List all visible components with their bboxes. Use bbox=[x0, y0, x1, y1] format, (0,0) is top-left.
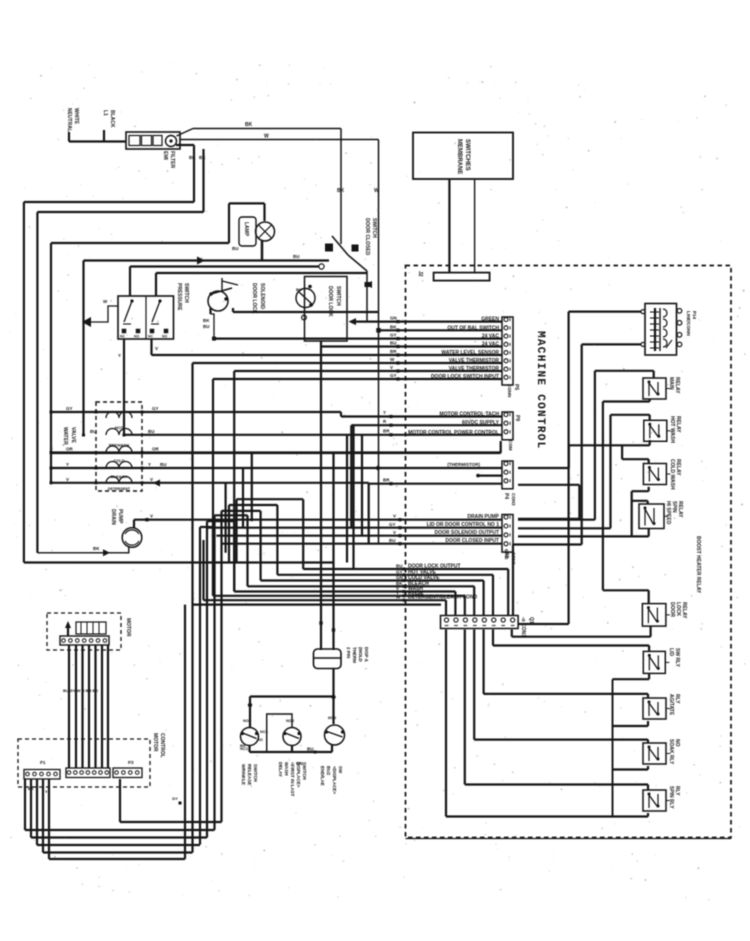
svg-text:DOOR: DOOR bbox=[669, 602, 675, 617]
svg-text:VALVE THERMISTOR: VALVE THERMISTOR bbox=[449, 366, 500, 372]
svg-text:RELEASE: RELEASE bbox=[247, 764, 252, 785]
svg-text:OR: OR bbox=[152, 447, 160, 452]
svg-text:BU: BU bbox=[232, 246, 239, 251]
svg-text:BU: BU bbox=[148, 429, 155, 434]
svg-text:RELAY: RELAY bbox=[681, 602, 687, 619]
svg-text:GN: GN bbox=[296, 761, 303, 766]
svg-text:BLACK: BLACK bbox=[109, 110, 115, 128]
svg-text:GY: GY bbox=[390, 373, 397, 378]
svg-text:24 VAC: 24 VAC bbox=[482, 334, 500, 340]
svg-text:BU: BU bbox=[390, 341, 397, 346]
svg-text:P1: P1 bbox=[40, 760, 46, 765]
svg-text:SWITCH: SWITCH bbox=[371, 218, 377, 238]
svg-text:MOTOR CONTROL TACH: MOTOR CONTROL TACH bbox=[440, 412, 500, 418]
svg-text:BOOST HEATER RELAY: BOOST HEATER RELAY bbox=[695, 536, 701, 594]
svg-text:Q1: Q1 bbox=[528, 617, 534, 624]
svg-text:Y: Y bbox=[118, 353, 121, 358]
svg-text:DOOR LOCK SWITCH INPUT: DOOR LOCK SWITCH INPUT bbox=[431, 374, 499, 380]
svg-text:SWITCH: SWITCH bbox=[302, 762, 307, 780]
svg-text:DELAY: DELAY bbox=[278, 762, 283, 777]
svg-text:GY: GY bbox=[172, 796, 178, 801]
svg-text:WATER LEVEL SENSOR: WATER LEVEL SENSOR bbox=[441, 350, 499, 356]
svg-text:V: V bbox=[66, 477, 69, 482]
svg-text:NEUTRAL: NEUTRAL bbox=[66, 108, 72, 132]
svg-text:LOCK: LOCK bbox=[675, 602, 681, 617]
svg-text:Y: Y bbox=[383, 410, 386, 415]
svg-text:GY: GY bbox=[390, 333, 397, 338]
svg-text:BU: BU bbox=[90, 429, 97, 434]
svg-text:RLY: RLY bbox=[674, 786, 680, 796]
svg-text:SW: SW bbox=[338, 766, 343, 774]
svg-text:SW RLY: SW RLY bbox=[674, 648, 680, 668]
svg-text:BU GY W R BR BK: BU GY W R BR BK bbox=[63, 688, 98, 693]
svg-text:NO: NO bbox=[162, 335, 167, 339]
svg-text:SWITCH: SWITCH bbox=[335, 286, 341, 306]
svg-text:2 PIN: 2 PIN bbox=[346, 647, 351, 658]
svg-text:J2: J2 bbox=[417, 271, 423, 277]
svg-text:(THERMISTOR): (THERMISTOR) bbox=[447, 462, 480, 467]
svg-text:BU: BU bbox=[293, 254, 300, 259]
svg-text:WASH: WASH bbox=[284, 762, 289, 776]
svg-text:NO2: NO2 bbox=[243, 718, 252, 723]
svg-text:60VDC SUPPLY: 60VDC SUPPLY bbox=[462, 420, 500, 426]
svg-text:BR: BR bbox=[383, 429, 390, 434]
svg-text:CONTROL: CONTROL bbox=[159, 733, 165, 758]
svg-text:CON3: CON3 bbox=[511, 493, 516, 506]
svg-text:LAMP: LAMP bbox=[243, 222, 249, 237]
svg-text:SWITCH: SWITCH bbox=[183, 283, 189, 303]
svg-text:24 VAC: 24 VAC bbox=[482, 342, 500, 348]
svg-text:GREEN: GREEN bbox=[481, 317, 499, 323]
svg-text:SWITCH: SWITCH bbox=[253, 764, 258, 782]
svg-text:OUT OF BAL SWITCH: OUT OF BAL SWITCH bbox=[447, 325, 499, 331]
svg-text:BK: BK bbox=[28, 786, 34, 791]
svg-text:THERM: THERM bbox=[352, 647, 357, 663]
svg-text:P5: P5 bbox=[513, 384, 519, 390]
svg-text:V: V bbox=[150, 514, 153, 519]
svg-text:WRINKLE: WRINKLE bbox=[241, 764, 246, 785]
svg-text:AGITATE: AGITATE bbox=[668, 694, 674, 716]
svg-text:SWITCHES: SWITCHES bbox=[464, 139, 470, 171]
svg-text:DOOR LOCK: DOOR LOCK bbox=[251, 283, 257, 314]
svg-text:NC: NC bbox=[120, 335, 125, 339]
svg-text:PUMP: PUMP bbox=[117, 509, 123, 524]
svg-text:GY: GY bbox=[396, 569, 403, 574]
svg-text:OR: OR bbox=[66, 447, 74, 452]
svg-text:RLY: RLY bbox=[674, 694, 680, 704]
svg-text:NO: NO bbox=[674, 739, 680, 747]
svg-text:(MOLD: (MOLD bbox=[358, 647, 363, 662]
svg-text:NO2: NO2 bbox=[286, 718, 295, 723]
svg-text:WHITE: WHITE bbox=[73, 108, 79, 125]
svg-text:SOAK RLY: SOAK RLY bbox=[668, 739, 674, 765]
svg-text:BU: BU bbox=[203, 324, 210, 329]
svg-text:MOTOR: MOTOR bbox=[125, 618, 131, 637]
svg-text:BU: BU bbox=[307, 747, 314, 752]
svg-text:SPIN RLY: SPIN RLY bbox=[668, 786, 674, 809]
svg-text:BK: BK bbox=[390, 324, 397, 329]
svg-text:CONN: CONN bbox=[507, 384, 512, 397]
svg-text:BK: BK bbox=[245, 122, 253, 128]
svg-text:V: V bbox=[393, 530, 396, 535]
svg-text:NC: NC bbox=[258, 738, 264, 742]
svg-text:COLD WASH: COLD WASH bbox=[669, 459, 675, 490]
svg-text:Y: Y bbox=[45, 789, 48, 794]
svg-text:NC2: NC2 bbox=[260, 729, 269, 734]
svg-text:NC: NC bbox=[148, 335, 153, 339]
svg-text:BR: BR bbox=[390, 349, 397, 354]
svg-text:SPIN: SPIN bbox=[671, 501, 677, 513]
svg-text:P14: P14 bbox=[692, 311, 697, 320]
svg-text:BU: BU bbox=[389, 538, 396, 543]
svg-text:BU: BU bbox=[296, 287, 302, 292]
svg-text:LINE/CONN: LINE/CONN bbox=[686, 311, 691, 336]
svg-text:BU: BU bbox=[160, 462, 167, 467]
svg-text:VALVE: VALVE bbox=[70, 427, 76, 444]
svg-text:L1: L1 bbox=[102, 110, 108, 116]
svg-text:EMI: EMI bbox=[162, 151, 168, 161]
svg-text:P4: P4 bbox=[503, 493, 509, 499]
svg-text:BK: BK bbox=[189, 155, 196, 160]
svg-text:GY: GY bbox=[389, 522, 396, 527]
svg-text:V: V bbox=[155, 346, 158, 351]
svg-text:HOT: HOT bbox=[115, 425, 124, 430]
svg-text:WATER: WATER bbox=[62, 427, 68, 445]
svg-text:LID: LID bbox=[668, 648, 674, 656]
svg-text:BK: BK bbox=[93, 546, 100, 551]
svg-text:V: V bbox=[390, 365, 393, 370]
svg-text:V: V bbox=[393, 514, 396, 519]
svg-text:COLD: COLD bbox=[113, 458, 124, 463]
svg-text:PREWASH: PREWASH bbox=[109, 443, 129, 448]
svg-text:VALVE THERMISTOR: VALVE THERMISTOR bbox=[449, 358, 500, 364]
svg-text:RELAY: RELAY bbox=[674, 377, 680, 394]
svg-text:W: W bbox=[264, 134, 269, 140]
svg-text:DETERGENT: DETERGENT bbox=[108, 487, 131, 491]
svg-text:RELAY: RELAY bbox=[677, 501, 683, 518]
svg-text:MEMBRANE: MEMBRANE bbox=[456, 139, 462, 174]
svg-text:RELAY: RELAY bbox=[675, 416, 681, 433]
svg-text:DOOR CLOSED: DOOR CLOSED bbox=[364, 218, 370, 256]
svg-text:DOOR LOCK: DOOR LOCK bbox=[327, 286, 333, 317]
svg-text:BR: BR bbox=[383, 478, 390, 483]
svg-text:DISP &: DISP & bbox=[364, 647, 369, 663]
svg-text:BK: BK bbox=[203, 318, 210, 323]
svg-text:MAIN: MAIN bbox=[668, 377, 674, 390]
svg-text:DRAIN: DRAIN bbox=[110, 509, 116, 525]
svg-text:MOTOR: MOTOR bbox=[152, 733, 158, 752]
svg-text:BU: BU bbox=[396, 564, 403, 569]
svg-text:-o CON1: -o CON1 bbox=[520, 617, 526, 637]
svg-text:V: V bbox=[150, 477, 153, 482]
svg-text:HI SPEED: HI SPEED bbox=[665, 501, 671, 525]
svg-text:COM: COM bbox=[508, 440, 513, 451]
svg-text:RELAY: RELAY bbox=[675, 459, 681, 476]
svg-text:BK: BK bbox=[199, 155, 206, 160]
svg-text:GN: GN bbox=[396, 575, 403, 580]
svg-text:HOT WASH: HOT WASH bbox=[669, 416, 675, 443]
svg-text:DETERGENT/BLEACH COND: DETERGENT/BLEACH COND bbox=[408, 595, 478, 601]
svg-text:MOTOR CONTROL POWER CONTROL: MOTOR CONTROL POWER CONTROL bbox=[408, 430, 499, 436]
svg-text:BUZ: BUZ bbox=[326, 766, 331, 775]
svg-text:P9: P9 bbox=[514, 415, 520, 421]
svg-text:FILTER: FILTER bbox=[169, 151, 175, 169]
svg-text:GY: GY bbox=[152, 406, 159, 411]
svg-text:MACHINE CONTROL: MACHINE CONTROL bbox=[534, 331, 546, 450]
svg-text:GY: GY bbox=[66, 406, 73, 411]
svg-text:Y: Y bbox=[66, 462, 69, 467]
svg-text:BK: BK bbox=[240, 743, 246, 748]
svg-text:PRESSURE: PRESSURE bbox=[176, 283, 182, 311]
svg-text:SOLENOID: SOLENOID bbox=[259, 283, 265, 310]
svg-text:<DISPLACE>: <DISPLACE> bbox=[332, 766, 337, 794]
svg-text:GN: GN bbox=[390, 316, 397, 321]
svg-text:BLEACH: BLEACH bbox=[111, 474, 128, 479]
svg-text:Y: Y bbox=[148, 462, 151, 467]
svg-text:NO: NO bbox=[134, 335, 139, 339]
svg-text:<FIRST IN LAST: <FIRST IN LAST bbox=[290, 762, 295, 797]
svg-text:P3: P3 bbox=[128, 760, 134, 765]
svg-text:END/LAE: END/LAE bbox=[320, 766, 325, 786]
